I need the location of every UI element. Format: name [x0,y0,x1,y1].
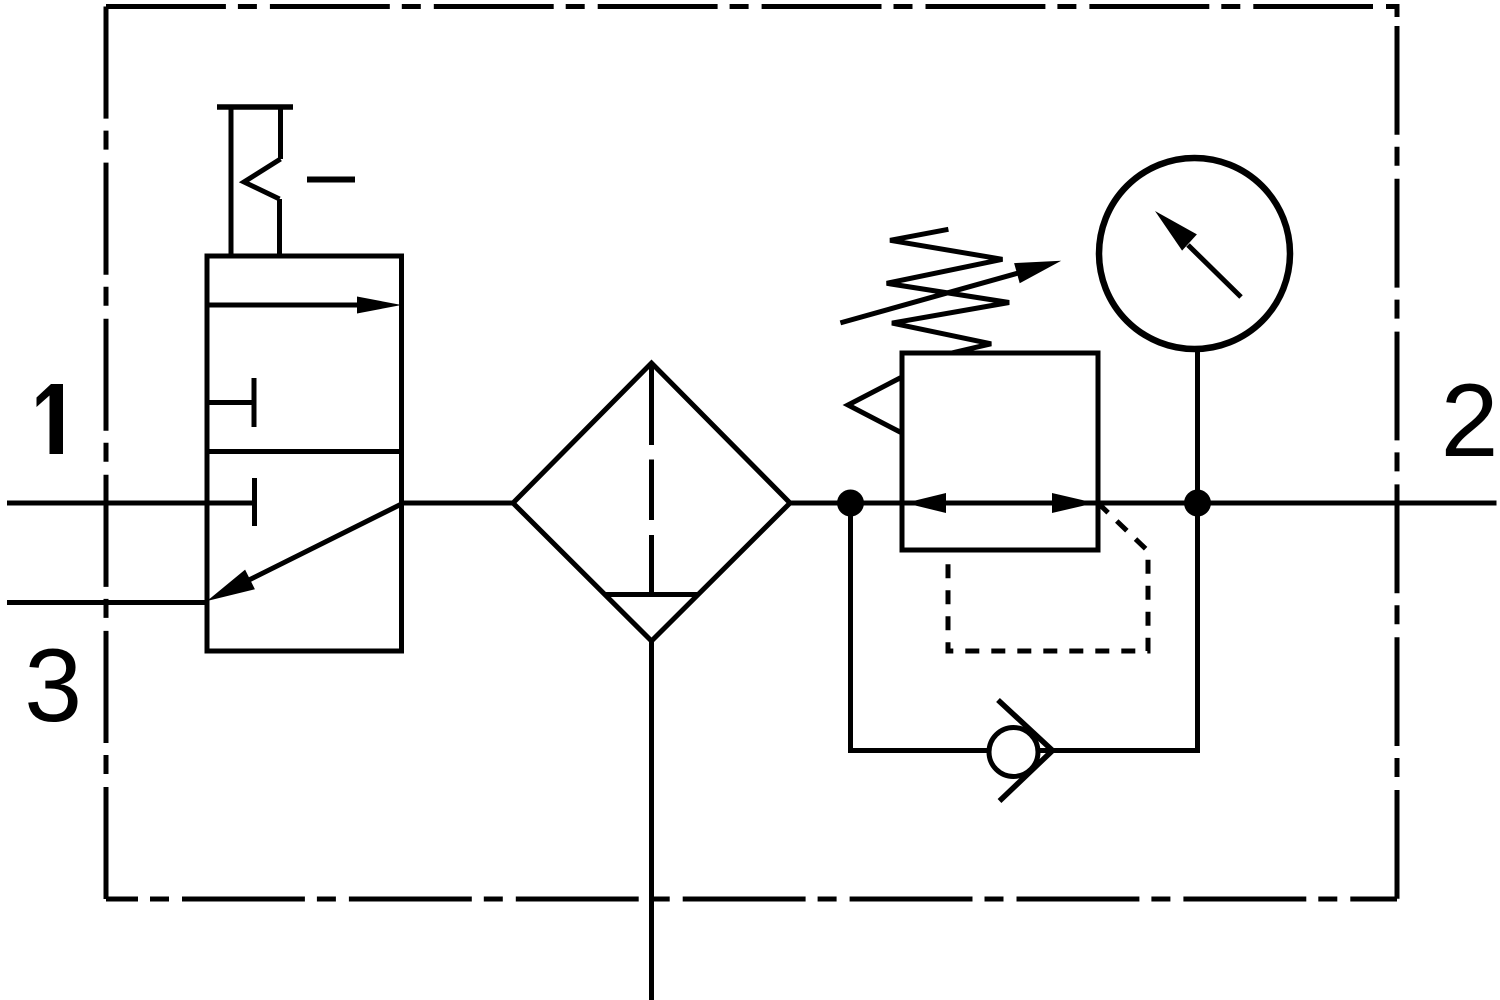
valve V1 exhaust path diagonal arrow, bottom position [207,504,402,601]
valve V1 body (3/2-way on-off valve, two positions) [207,256,402,651]
port 3 exhaust line [7,600,209,605]
regulator R1 setting spring [887,229,1009,353]
check valve CV1 seat [998,700,1053,801]
regulator R1 relief vent [848,377,902,433]
node: junction dot left [837,490,864,517]
node: junction dot right [1184,490,1211,517]
valve V1 blocked port T, top position [207,378,257,427]
svg-text:3: 3 [24,628,82,744]
regulator R1 pilot line (dashed) [948,503,1148,651]
regulator R1 adjustment arrow [840,261,1061,323]
check valve CV1 ball [989,728,1038,777]
svg-text:2: 2 [1441,363,1499,479]
valve V1 flow arrow, top position [207,297,402,314]
pressure gauge G1 needle [1155,211,1241,297]
wire: filter outlet to port 2 (main line) [790,501,1497,506]
port 1 label [37,384,64,454]
filter F1 condensate drain line [649,641,654,1000]
wire: check-valve bypass branch [851,503,1198,751]
enclosure border (dash-dot assembly frame) [106,7,1397,900]
port 1 supply line [7,501,255,506]
wire: gauge connection [1195,351,1200,503]
valve V1 blocked port T, bottom position [252,478,257,526]
pressure gauge G1 dial [1099,158,1290,349]
regulator R1 body [902,353,1098,550]
regulator R1 flow path arrowheads [905,493,1095,513]
valve V1 detent actuator [217,105,355,257]
filter F1 element (dashed centre line) [649,365,654,592]
filter F1 diamond body [513,363,790,641]
wire: valve outlet to filter inlet [402,501,514,506]
filter F1 sump separator line [605,592,698,597]
